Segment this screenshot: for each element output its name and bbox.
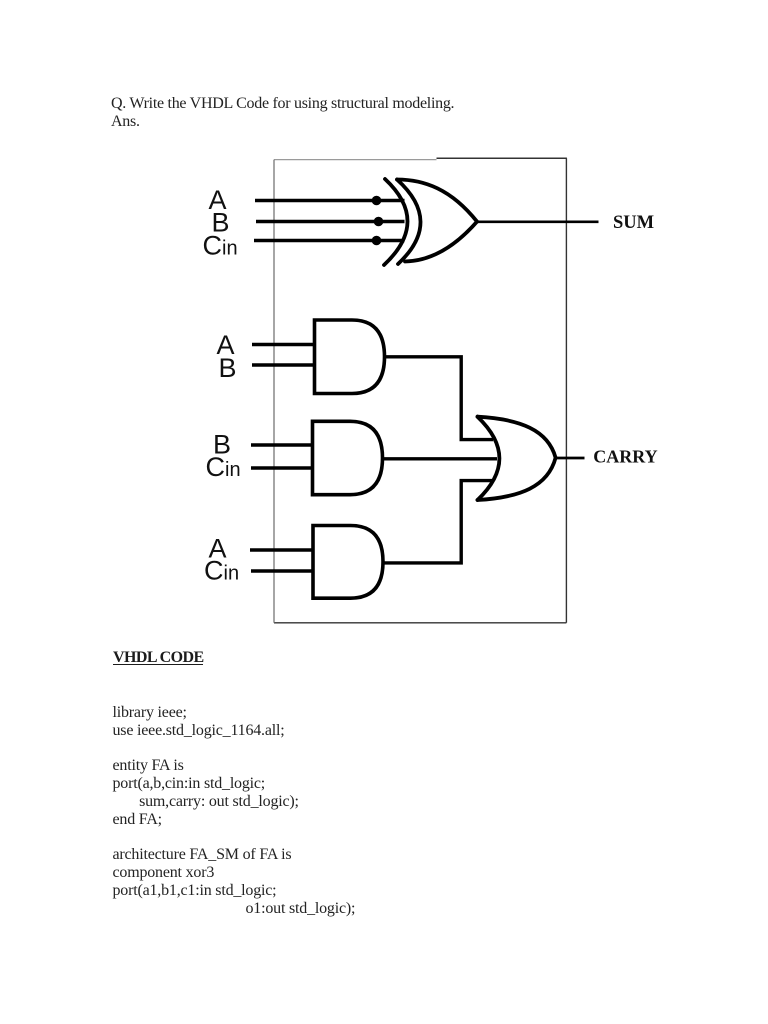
wire and2 output to or gate [383,457,498,460]
svg-text:SUM: SUM [613,213,654,233]
and gate and2 (B·Cin) [313,421,383,494]
wire Cin to and2 [251,466,314,470]
wire B to and2 [251,443,314,447]
wire A to and3 [250,548,314,552]
and gate and1 (A·B) [315,320,385,394]
net label Cin (and3 input) [204,556,239,586]
xor gate (3-input, SUM) [384,179,477,265]
VHDL CODE heading [113,649,204,667]
net label A (xor input) [209,185,227,215]
net label SUM [613,213,654,233]
net label A (and1 input) [217,330,235,360]
svg-text:B: B [219,353,237,383]
wire or output to CARRY [556,457,585,460]
and gate and3 (A·Cin) [313,526,383,599]
wire and3 output to or gate [383,481,492,563]
net label Cin (and2 input) [206,452,241,482]
net label A (and3 input) [209,534,227,564]
wire xor output to SUM [477,221,599,224]
svg-text:CARRY: CARRY [593,447,657,467]
net label B (and1 input) [219,353,237,383]
net label Cin (xor input) [203,231,238,261]
wire B to xor [256,220,405,224]
net label CARRY [593,447,657,467]
svg-text:Cin: Cin [203,231,238,261]
question text [111,95,454,131]
wire A to xor [255,199,405,203]
wire A to and1 [252,343,316,347]
net label B (xor input) [212,208,230,238]
junction dot on B wire [374,217,384,227]
svg-text:Cin: Cin [204,556,239,586]
junction dot on Cin wire [372,236,382,246]
svg-text:Cin: Cin [206,452,241,482]
junction dot on A wire [372,196,382,206]
wire and1 output to or gate [385,357,494,440]
or gate (CARRY) [478,417,556,500]
net label B (and2 input) [213,430,231,460]
wire Cin to xor [254,239,405,243]
wire Cin to and3 [251,569,314,573]
wire B to and1 [252,363,316,367]
code block [113,704,356,918]
